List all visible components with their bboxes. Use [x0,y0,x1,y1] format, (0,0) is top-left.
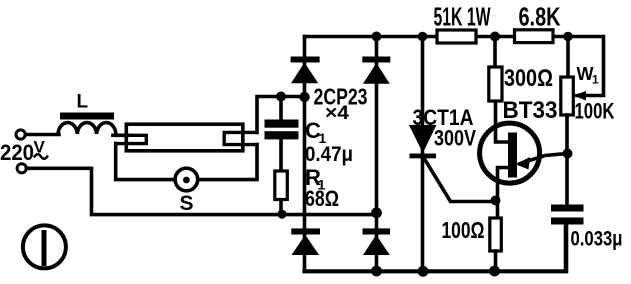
label C1 [305,118,353,211]
svg-text:L: L [77,92,89,113]
lamp right filament [224,132,257,144]
wire T2 to bridge AC2 [27,168,377,214]
capacitor C1 leads [279,97,283,214]
label 3CT1A [413,105,474,130]
bridge right branch wire [375,37,379,270]
svg-text:1: 1 [592,73,599,87]
bridge left branch wire [303,37,307,270]
resistor R1 body [275,171,288,200]
resistor 300ohm body [489,67,502,101]
top rail [305,37,604,96]
svg-text:300Ω: 300Ω [504,65,553,92]
svg-text:220: 220 [0,140,34,165]
potentiometer W1 body [561,77,574,115]
resistor 100ohm body [490,218,502,251]
node top rail SCR [418,32,428,42]
resistor 100ohm bottom lead [494,251,498,270]
label 51K 1W [434,2,491,32]
inductor L coil [58,123,116,134]
resistor 300ohm leads [495,37,509,143]
potentiometer wiper arrowhead [574,91,587,101]
capacitor C2 plates [551,205,584,212]
inductor L core bar [60,113,114,120]
diode D4 (bottom-right) [363,228,391,234]
resistor 6.8K body [515,30,554,43]
node C1 top [276,92,286,102]
svg-text:68Ω: 68Ω [305,186,339,211]
svg-text:100Ω: 100Ω [442,217,485,243]
node top rail W1 [563,32,573,42]
thyristor V1 3CT1A triangle [409,125,437,153]
diode D1 (top-left) [291,57,320,63]
svg-text:S: S [180,192,194,215]
wire coil to lamp [113,134,128,138]
emitter arrowhead [516,157,531,170]
terminal T2 (220V bottom) [17,164,26,173]
transistor emitter lead [520,154,568,164]
transistor base bar [508,133,517,178]
transistor BT33 circle [480,123,540,183]
svg-text:W: W [577,64,594,84]
node bottom rail 100ohm [489,266,500,277]
node bottom rail D4 [371,266,382,277]
label 300ohm [504,65,553,92]
label 220V~ [0,138,46,165]
node bridge AC1 [299,92,309,102]
terminal T1 (220V top) [16,130,25,139]
bottom rail [305,225,566,272]
inductor L label [77,92,89,113]
capacitor C2 0.033u leads [565,154,569,272]
potentiometer W1 top lead [566,37,570,78]
resistor 51K 1W body [437,30,476,43]
node emitter / W1 bottom [563,149,573,159]
SCR branch wire [421,37,425,270]
diode D3 (bottom-left) [291,228,320,234]
label 300V [434,126,476,151]
wire starter loop left [116,144,174,180]
svg-text:0.033μ: 0.033μ [571,228,623,251]
svg-text:BT33: BT33 [503,97,558,124]
node R1 bottom [278,210,287,219]
potentiometer W1 bottom lead [565,115,569,154]
wire right filament top pin up to DC node [257,97,305,133]
node bottom rail SCR [418,266,429,277]
label BT33 [503,97,558,124]
svg-text:0.47μ: 0.47μ [305,143,353,166]
fluorescent lamp tube [126,124,243,151]
svg-text:51K 1W: 51K 1W [434,2,491,32]
thyristor gate wire [425,159,493,202]
label 0.033u [571,228,623,251]
label 6.8K [519,2,561,32]
svg-text:100K: 100K [575,99,615,124]
starter S [175,168,198,191]
node top rail D2 [372,32,382,42]
capacitor C1 plates [265,120,299,128]
transistor B1 lead [498,168,511,219]
node top rail 300ohm [490,32,500,42]
wire starter loop right [200,145,258,180]
label 100ohm [442,217,485,243]
thyristor cathode bar [410,154,437,159]
label W1 [575,64,615,124]
svg-text:300V: 300V [434,126,476,151]
svg-text:6.8K: 6.8K [519,2,561,32]
label 2CP23 x4 [314,84,368,125]
svg-text:×4: ×4 [325,103,349,124]
figure number circle 1 [23,225,66,268]
lamp left filament [113,135,146,143]
wire T1 to inductor [26,133,60,137]
node bridge AC2 [371,207,382,218]
diode D2 (top-right) [362,57,390,63]
node gate / B1 / 100ohm [491,196,501,206]
